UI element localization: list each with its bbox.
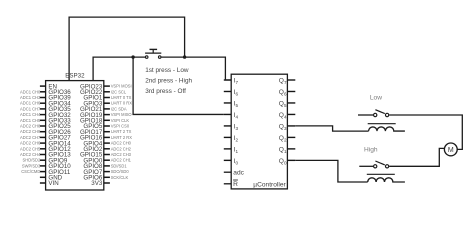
ESP32 pin GPIO23 [80, 83, 132, 90]
relay contact switch SW-High [374, 161, 389, 168]
ESP32 pin GPIO3 [83, 100, 132, 107]
ESP32 pin GPIO12 [20, 146, 71, 153]
ESP32 pin GPIO8 [83, 163, 127, 170]
ESP32 pin GND [40, 175, 63, 182]
svg-text:VSPI MISO: VSPI MISO [111, 112, 132, 117]
svg-text:CSC/CMD: CSC/CMD [21, 169, 40, 174]
ESP32 pin 3V3 [91, 180, 110, 187]
svg-text:SCK/CLK: SCK/CLK [111, 175, 129, 180]
svg-text:UART 2 RX: UART 2 RX [111, 135, 133, 140]
uController pin Q5 [279, 101, 296, 108]
uController pin I3 [224, 124, 239, 131]
svg-text:Low: Low [370, 94, 382, 101]
svg-text:I2C SCL: I2C SCL [111, 89, 127, 94]
ESP32 pin GPIO15 [80, 152, 132, 159]
svg-text:2nd press - High: 2nd press - High [145, 77, 192, 84]
junction node at button-right wire [183, 55, 186, 58]
microcontroller U2 body [231, 74, 287, 189]
note: press sequence annotation [145, 67, 192, 95]
ESP32 pin GPIO0 [83, 157, 131, 164]
uController pin R (active-low reset) [224, 180, 238, 188]
relay coil L1 (Low) [368, 124, 405, 131]
svg-text:adc: adc [233, 170, 244, 177]
uController pin I6 [224, 89, 239, 96]
uController pin Q6 [279, 89, 296, 96]
relay coil L2 (High) [367, 174, 405, 182]
ESP32 pin GPIO19 [80, 112, 132, 119]
svg-text:ADC2 CH1: ADC2 CH1 [111, 158, 132, 163]
svg-text:SDI/SD1: SDI/SD1 [111, 163, 128, 168]
svg-text:R: R [233, 181, 238, 188]
svg-text:ADC2 CH9: ADC2 CH9 [20, 129, 41, 134]
push button S1 [145, 49, 161, 58]
svg-text:ADC2 CH3: ADC2 CH3 [111, 152, 132, 157]
ESP32 pin GPIO13 [20, 152, 71, 159]
svg-text:UART 2 TX: UART 2 TX [111, 129, 132, 134]
svg-text:µController: µController [253, 181, 286, 188]
svg-text:ADC1 CH5: ADC1 CH5 [20, 118, 41, 123]
ESP32 pin GPIO10 [22, 163, 71, 170]
uController pin Q7 [279, 78, 296, 85]
wire: ESP32 top to button-right junction (loop over top) [69, 17, 185, 81]
wire: Q3 to Low relay coil [295, 126, 368, 131]
svg-text:VSPI CLK: VSPI CLK [111, 118, 130, 123]
ESP32 pin GPIO14 [20, 140, 71, 147]
ESP32 pin GPIO11 [21, 169, 71, 176]
ESP32 pin VIN [40, 180, 59, 187]
svg-text:ADC1 CH4: ADC1 CH4 [20, 112, 41, 117]
wire: button right contact to uController I7 [161, 57, 231, 80]
ESP32 pin GPIO33 [20, 118, 71, 125]
svg-text:SHD/SD2: SHD/SD2 [23, 158, 41, 163]
wire: Q0 to High relay coil [295, 160, 367, 182]
uController pin I4 [224, 112, 239, 119]
uController pin I0 [224, 158, 239, 165]
ESP32 pin GPIO22 [80, 89, 127, 96]
svg-text:3rd press - Off: 3rd press - Off [145, 88, 186, 95]
ESP32 pin GPIO32 [20, 112, 71, 119]
ESP32 module U1 body [46, 72, 104, 190]
svg-text:I2C SDA: I2C SDA [111, 106, 127, 111]
ESP32 pin GPIO5 [83, 123, 129, 130]
ESP32 pin GPIO4 [83, 140, 131, 147]
svg-text:M: M [448, 147, 454, 154]
wire: Low contact left stub [358, 114, 373, 116]
uController pin Q4 [279, 112, 296, 119]
wire: ESP32 top to push button left contact [93, 57, 145, 81]
svg-text:1st press - Low: 1st press - Low [145, 67, 189, 74]
uController pin I1 [224, 147, 239, 154]
svg-text:ESP32: ESP32 [65, 72, 85, 79]
uController pin Q0 [279, 158, 296, 165]
svg-text:VSPI CS0: VSPI CS0 [111, 124, 130, 129]
ESP32 pin GPIO7 [83, 169, 129, 176]
ESP32 pin GPIO17 [80, 129, 132, 136]
uController pin adc [224, 170, 245, 177]
svg-text:ADC2 CH6: ADC2 CH6 [20, 141, 41, 146]
svg-text:VSPI MOSI: VSPI MOSI [111, 84, 132, 89]
svg-text:ADC2 CH4: ADC2 CH4 [20, 152, 41, 157]
motor M1 [444, 143, 457, 156]
ESP32 pin GPIO9 [23, 157, 68, 164]
ESP32 pin GPIO16 [80, 135, 132, 142]
ESP32 pin GPIO39 [20, 95, 71, 102]
svg-text:SDO/SD0: SDO/SD0 [111, 169, 130, 174]
uController pin I5 [224, 101, 239, 108]
ESP32 pin GPIO26 [20, 129, 71, 136]
svg-text:ADC1 CH0: ADC1 CH0 [20, 89, 41, 94]
svg-text:3V3: 3V3 [91, 180, 103, 187]
ESP32 pin GPIO2 [83, 146, 131, 153]
ESP32 pin EN [40, 83, 57, 90]
junction node at button-left wire [131, 55, 134, 58]
uController pin I2 [224, 135, 239, 142]
svg-text:UART 0 TX: UART 0 TX [111, 95, 132, 100]
ESP32 pin GPIO35 [20, 106, 71, 113]
svg-text:High: High [364, 146, 378, 153]
svg-text:UART 0 RX: UART 0 RX [111, 101, 133, 106]
uController pin Q1 [279, 147, 296, 154]
ESP32 pin GPIO6 [83, 175, 128, 182]
svg-text:ADC1 CH7: ADC1 CH7 [20, 106, 41, 111]
relay contact switch SW-Low [374, 110, 389, 117]
svg-text:SWP/SD3: SWP/SD3 [22, 163, 41, 168]
ESP32 pin GPIO25 [20, 123, 71, 130]
ESP32 pin GPIO1 [83, 95, 131, 102]
svg-text:ADC2 CH8: ADC2 CH8 [20, 124, 41, 129]
uController pin I7 [224, 78, 239, 85]
svg-text:VIN: VIN [48, 180, 58, 187]
uController pin Q3 [279, 124, 296, 131]
svg-text:ADC2 CH7: ADC2 CH7 [20, 135, 41, 140]
svg-text:ADC2 CH5: ADC2 CH5 [20, 146, 41, 151]
ESP32 pin GPIO36 [20, 89, 71, 96]
svg-text:ADC1 CH6: ADC1 CH6 [20, 101, 41, 106]
wire: Low contact to motor (right side) [389, 115, 462, 149]
ESP32 pin GPIO18 [80, 118, 129, 125]
ESP32 pin GPIO27 [20, 135, 71, 142]
wire: High contact left stub [359, 165, 373, 167]
wire: junction tap down to uController I4 [133, 57, 224, 114]
wire: High contact to motor (left side) [389, 148, 444, 166]
svg-text:ADC1 CH3: ADC1 CH3 [20, 95, 41, 100]
ESP32 pin GPIO34 [20, 100, 71, 107]
ESP32 pin GPIO21 [80, 106, 127, 113]
uController pin Q2 [279, 135, 296, 142]
svg-text:ADC2 CH0: ADC2 CH0 [111, 141, 132, 146]
svg-text:ADC2 CH2: ADC2 CH2 [111, 146, 132, 151]
